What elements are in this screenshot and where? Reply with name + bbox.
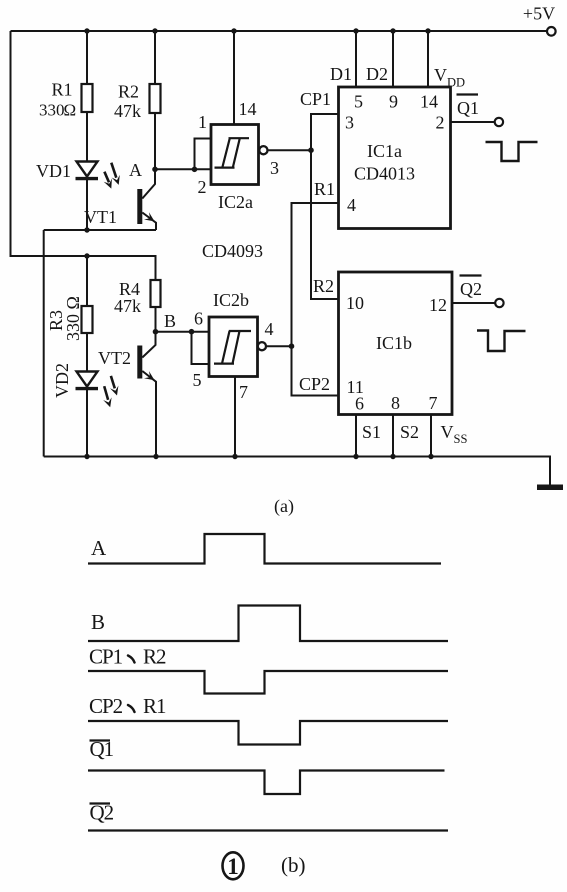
svg-text:A: A (129, 160, 142, 180)
node rail-pin14 IC2a (231, 28, 236, 33)
svg-text:IC2b: IC2b (213, 290, 249, 310)
wire Q2 output (452, 302, 495, 304)
node VD1-cathode junction (84, 227, 89, 232)
svg-text:CD4093: CD4093 (202, 241, 263, 261)
+5V terminal (547, 27, 556, 36)
svg-text:R1: R1 (52, 80, 73, 100)
wire VDD pin 14 (427, 31, 429, 87)
svg-text:S1: S1 (362, 422, 381, 442)
node bus-VT2 emitter (153, 454, 158, 459)
svg-text:4: 4 (265, 319, 274, 339)
wire pin 7 IC2b to ground bus (234, 377, 236, 457)
svg-text:R1: R1 (314, 179, 335, 199)
svg-text:B: B (91, 610, 105, 634)
node rail-D1 (353, 28, 358, 33)
output bubble IC2a (259, 146, 267, 154)
svg-text:5: 5 (193, 370, 202, 390)
wire Q1 output (451, 121, 495, 123)
node pin2 junction (192, 167, 198, 173)
waveform Q1 (88, 771, 445, 795)
light arrows VD1 (111, 163, 116, 178)
svg-text:4: 4 (347, 195, 356, 215)
waveform B (88, 606, 448, 642)
svg-text:+5V: +5V (523, 4, 555, 24)
waveform CP1/R2 (88, 671, 448, 694)
svg-text:(b): (b) (281, 853, 306, 877)
wire CP1/R2 net (311, 114, 339, 299)
svg-text:3: 3 (345, 113, 354, 133)
svg-text:(a): (a) (274, 496, 294, 517)
svg-text:IC1b: IC1b (376, 333, 412, 353)
svg-text:7: 7 (239, 382, 248, 402)
resistor R2 (150, 84, 161, 113)
wire R3 to VD2 (86, 333, 88, 372)
svg-text:12: 12 (429, 295, 447, 315)
svg-text:2: 2 (198, 177, 207, 197)
node CP1 junction (308, 147, 314, 153)
svg-text:3: 3 (270, 158, 279, 178)
svg-text:8: 8 (391, 393, 400, 413)
wire D1 pin 5 (355, 31, 357, 87)
wire node B to IC2b inputs (156, 331, 210, 333)
waveform A (88, 534, 441, 564)
waveform Q2 (88, 829, 448, 831)
svg-text:VT1: VT1 (84, 207, 117, 227)
svg-text:D2: D2 (366, 64, 388, 84)
svg-text:V: V (441, 422, 454, 442)
svg-text:1: 1 (227, 854, 239, 879)
svg-text:47k: 47k (114, 296, 141, 316)
waveform glyph Q2 (477, 331, 526, 352)
svg-text:14: 14 (239, 99, 257, 119)
node bus-VD2 (84, 454, 89, 459)
resistor R1 (82, 84, 93, 112)
lower rail node R3 (84, 253, 89, 258)
resistor R3 (rotated labels) (82, 306, 93, 333)
node rail-R1 (84, 28, 89, 33)
svg-text:CP1: CP1 (300, 89, 331, 109)
transistor VT1 (142, 169, 155, 198)
node bus-S2 (390, 454, 395, 459)
svg-text:47k: 47k (114, 101, 141, 121)
svg-text:CP2: CP2 (299, 374, 330, 394)
svg-text:Q1: Q1 (457, 98, 479, 118)
wire pin5 stub (192, 332, 210, 364)
schmitt symbol IC2a (215, 138, 250, 167)
svg-text:Q2: Q2 (460, 279, 482, 299)
wire left ground drop (43, 230, 45, 457)
resistor R4 (151, 280, 161, 307)
svg-text:5: 5 (354, 92, 363, 112)
wire ground bus (44, 457, 550, 486)
svg-text:IC2a: IC2a (218, 192, 253, 212)
wire VSS pin 7 (430, 415, 432, 457)
output bubble IC2b (258, 342, 266, 350)
svg-text:R2: R2 (313, 276, 334, 296)
Q2 terminal (495, 299, 503, 307)
svg-text:A: A (91, 536, 107, 560)
svg-text:SS: SS (454, 432, 468, 446)
pin 14 wire IC2a (233, 31, 235, 125)
node rail-VDD (425, 28, 430, 33)
svg-text:R2: R2 (118, 82, 139, 102)
wire R4 to node B (155, 307, 157, 332)
svg-text:IC1a: IC1a (367, 141, 402, 161)
svg-text:V: V (434, 65, 447, 85)
node A (152, 167, 158, 173)
svg-text:D1: D1 (330, 64, 352, 84)
wire VD1 cathode down (86, 179, 88, 230)
op-amp gate IC2a (Schmitt NAND) (211, 125, 259, 185)
wire emitter/cathode horizontal (44, 229, 156, 231)
waveform CP2/R1 (88, 721, 448, 745)
svg-text:7: 7 (429, 393, 438, 413)
op-amp gate IC2b (Schmitt NAND) (209, 317, 258, 377)
svg-text:R2: R2 (143, 645, 166, 669)
wire D2 pin 9 (392, 31, 394, 87)
svg-text:CD4013: CD4013 (354, 164, 415, 184)
node pin6 junction (189, 329, 195, 335)
svg-text:VT2: VT2 (98, 348, 131, 368)
node rail-R2 (152, 28, 157, 33)
wire S2 pin 8 (392, 415, 394, 457)
svg-text:6: 6 (355, 394, 364, 414)
waveform glyph Q1 (486, 142, 538, 161)
transistor VT2 (142, 332, 155, 358)
figure number circled 1 (223, 852, 244, 879)
svg-text:Ω: Ω (64, 101, 77, 120)
wire node A to IC2a inputs (155, 168, 212, 170)
svg-text:CP2: CP2 (89, 694, 123, 718)
svg-text:10: 10 (346, 293, 364, 313)
wire IC2b output (266, 345, 291, 347)
wire R3 top lead (86, 256, 88, 306)
node bus-VSS (428, 454, 433, 459)
wire R2 top lead (154, 31, 156, 84)
svg-text:CP1: CP1 (89, 645, 123, 669)
wire +5V top supply rail (11, 30, 548, 32)
wire R1/CP2 net (292, 203, 339, 396)
wire R2 to node A (154, 114, 156, 169)
svg-text:330 Ω: 330 Ω (63, 296, 83, 341)
svg-text:VD2: VD2 (52, 363, 72, 398)
LED VD2 (77, 372, 98, 387)
svg-text:S2: S2 (400, 422, 419, 442)
ground (537, 485, 563, 491)
svg-text:DD: DD (447, 76, 465, 90)
wire left supply branch down to lower rail and R4 (11, 31, 156, 280)
svg-text:B: B (164, 311, 176, 331)
svg-text:9: 9 (389, 92, 398, 112)
svg-text:VD1: VD1 (36, 161, 71, 181)
svg-text:14: 14 (420, 92, 438, 112)
node rail-D2 (390, 28, 395, 33)
wire R1 to VD1 (86, 112, 88, 162)
svg-text:2: 2 (436, 113, 445, 133)
node CP2 junction (289, 343, 295, 349)
svg-text:R1: R1 (143, 694, 166, 718)
svg-text:330: 330 (39, 101, 65, 120)
node bus-S1 (353, 454, 358, 459)
wire R1 top lead (86, 31, 88, 84)
Q1 terminal (495, 118, 503, 126)
wire IC2a output (268, 149, 311, 151)
wire S1 pin 6 (355, 415, 357, 457)
node bus-pin7 (232, 454, 237, 459)
schmitt symbol IC2b (214, 331, 251, 364)
wire pin1 stub (195, 139, 212, 170)
LED VD1 (77, 162, 98, 177)
svg-text:6: 6 (194, 309, 203, 329)
node B (153, 329, 159, 335)
flip-flop IC1b CD4013 (339, 272, 453, 415)
wire VD2 cathode to ground bus (86, 389, 88, 457)
flip-flop IC1a CD4013 (339, 87, 451, 229)
light arrows VD2 (111, 376, 115, 389)
svg-text:1: 1 (198, 112, 207, 132)
